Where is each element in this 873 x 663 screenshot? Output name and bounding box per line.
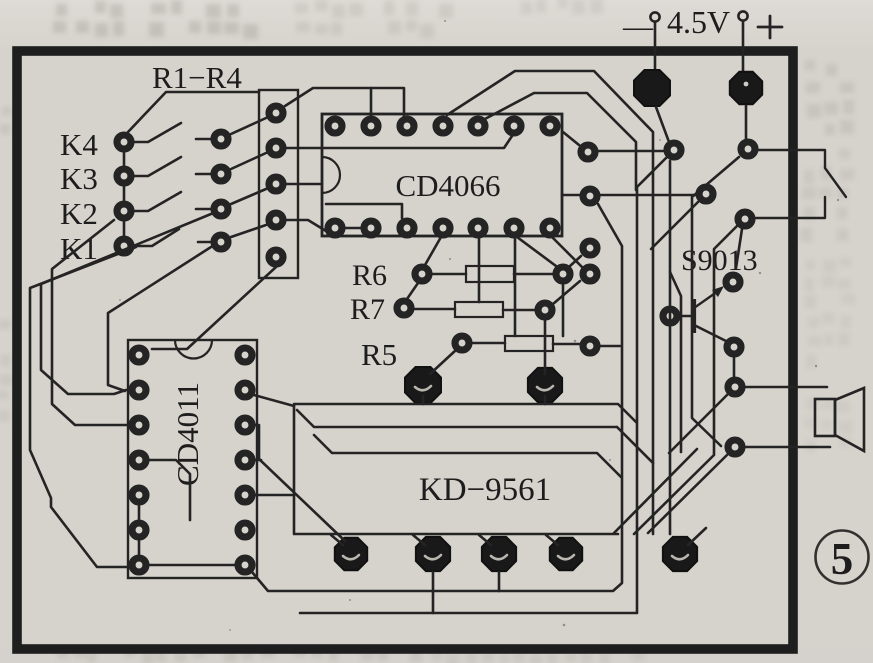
wire K right stubs xyxy=(196,139,211,242)
pad K1 left xyxy=(117,239,131,253)
wire bus vertical 637 with bottom rail xyxy=(300,158,666,613)
pad CD4066 pin top 7 xyxy=(543,119,557,133)
wire R7 right drop to blob B xyxy=(544,319,547,374)
resistor R6 body xyxy=(466,266,514,282)
wire IC corner to pad net1 xyxy=(563,132,579,145)
wire R column to CD4066 pin3 top xyxy=(285,88,404,117)
pad Q1 emitter xyxy=(726,275,740,289)
pad Q1 base xyxy=(663,309,677,323)
pad CD4066 pin bottom 4 xyxy=(436,221,450,235)
wire arm K3 to R2 xyxy=(231,153,266,169)
pad net1 xyxy=(581,145,595,159)
wire net2 to net6 xyxy=(600,194,696,197)
svg-text:KD−9561: KD−9561 xyxy=(419,472,551,508)
wire switch-top pad route to speaker-bottom pad xyxy=(692,157,739,446)
wire net5 drop vertical xyxy=(669,161,672,534)
pad K3 right xyxy=(214,167,228,181)
wire bus fan diag 1 xyxy=(614,449,697,533)
wire bus vertical 681 branch xyxy=(670,272,681,452)
wire R column pad5 diagonal through notch to pin1L xyxy=(152,267,276,349)
wire K column links xyxy=(123,152,126,236)
wire pin5R to bus left edge xyxy=(255,494,294,497)
CD4066 notch xyxy=(322,157,340,193)
wire CD4011 pins 5-6 left link xyxy=(138,505,141,520)
wire CD4011 pins 6-7 left link xyxy=(138,540,141,555)
pad K2 right xyxy=(214,202,228,216)
wire bus h2 chamfer into v653 xyxy=(617,427,653,463)
wire switch bottom contact xyxy=(756,197,825,218)
pad K4 right xyxy=(214,132,228,146)
pad CD4011 pin left 3 xyxy=(132,418,146,432)
pad CD4066 pin bottom 5 xyxy=(471,221,485,235)
wire net1 to net5 xyxy=(598,150,664,153)
wire K2-right to pin2 left xyxy=(41,214,211,394)
solder blob pad D xyxy=(416,537,450,571)
pad K2 left xyxy=(117,204,131,218)
pad K4 left xyxy=(117,135,131,149)
pad CD4011 pin left 5 xyxy=(132,488,146,502)
power terminal negative circle xyxy=(650,12,659,21)
wire pin4R stub xyxy=(253,459,261,462)
wire switch bottom to emitter xyxy=(736,229,742,268)
wire speaker top xyxy=(745,386,827,389)
wire pin2R to bus corner xyxy=(254,395,294,406)
pad R column 1 xyxy=(269,106,283,120)
figure number 5 circled xyxy=(816,531,869,585)
transistor Q1 S9013 bar xyxy=(692,299,696,333)
wire R6 leads xyxy=(432,273,553,276)
wire K2 to pin3 left xyxy=(52,220,129,425)
wire net2 pad down vertical 621 to CD4011 pin7R xyxy=(252,204,622,591)
wire R6 right drop to R5 body xyxy=(562,283,565,336)
pad R6 right xyxy=(556,267,570,281)
wire bus rectangle KD-9561 xyxy=(294,404,636,534)
wire blob drops xyxy=(433,572,499,613)
white fleck on positive blob xyxy=(744,82,749,87)
pad CD4011 pin left 6 xyxy=(132,523,146,537)
wire switch arm K1 xyxy=(136,229,179,246)
wire K4 label to box top xyxy=(128,92,259,132)
pad R5 left xyxy=(455,336,469,350)
op IC U1 CD4066 outline xyxy=(322,114,562,236)
wire R column pad3 to notch xyxy=(286,183,322,186)
wire bus vertical 714 with fan xyxy=(634,226,737,534)
svg-text:R1−R4: R1−R4 xyxy=(152,60,242,95)
pad CD4066 pin bottom 7 xyxy=(543,221,557,235)
wire CD4011 pin7L to pin7R link xyxy=(150,564,235,567)
pad R column 3 xyxy=(269,177,283,191)
solder blob pad A xyxy=(405,367,441,403)
wire R6 right up to pad 590-248 xyxy=(570,256,581,266)
svg-text:CD4066: CD4066 xyxy=(395,168,500,203)
wire pin4 bottom to R6 left xyxy=(425,237,441,265)
pad CD4066 pin bottom 2 xyxy=(364,221,378,235)
solder blob pad B xyxy=(528,368,562,402)
resistor R5 body xyxy=(505,336,553,351)
wire K1 to CD4011 pin7 left xyxy=(30,247,136,567)
pad CD4011 pin left 1 xyxy=(132,348,146,362)
pad CD4066 pin bottom 6 xyxy=(507,221,521,235)
wire switch arm K3 xyxy=(134,157,181,176)
pad CD4011 pin right 4 xyxy=(238,453,252,467)
svg-text:—: — xyxy=(622,10,654,43)
pad CD4011 pin right 5 xyxy=(238,488,252,502)
solder blob pad G xyxy=(663,537,697,571)
solder blob pad negative supply xyxy=(634,70,670,106)
pad switch bottom xyxy=(738,212,752,226)
wire blob row stubs xyxy=(331,535,558,545)
wire blob G stub xyxy=(688,528,706,545)
wire internal step to pin3 bottom xyxy=(326,204,402,218)
pad R column 4 xyxy=(269,213,283,227)
pad CD4066 pin bottom 1 xyxy=(328,221,342,235)
svg-text:4.5V: 4.5V xyxy=(667,4,730,40)
wire R6 left to R7 left xyxy=(407,283,418,299)
wire speaker bottom xyxy=(745,446,830,449)
svg-text:K2: K2 xyxy=(60,196,98,231)
pad K1 right xyxy=(214,235,228,249)
wire CD4066 pin2 top drop xyxy=(370,88,373,117)
svg-text:R7: R7 xyxy=(350,293,385,326)
wire R5 right to bus xyxy=(600,345,620,348)
pad CD4066 pin bottom 3 xyxy=(400,221,414,235)
wire net6 diag to drop xyxy=(651,202,698,249)
wire negative supply drop xyxy=(654,22,657,80)
wire R5 left to blob A xyxy=(430,350,456,374)
pad CD4011 pin left 7 xyxy=(132,558,146,572)
pad CD4066 pin top 4 xyxy=(436,119,450,133)
wire CD4011 internal step xyxy=(148,460,190,520)
pad net5 xyxy=(667,143,681,157)
pad CD4011 pin left 2 xyxy=(132,383,146,397)
pad R5 right xyxy=(583,339,597,353)
wire fan diag speaker-bottom xyxy=(648,455,727,533)
wire pin4-top sweep into vertical 653 xyxy=(447,71,653,534)
wire pin5-top sweep into vertical 637 xyxy=(483,93,636,190)
speaker xyxy=(815,388,864,451)
solder blob pad C xyxy=(335,538,367,570)
wire Q1 collector lead xyxy=(694,325,726,341)
pad R column 2 xyxy=(269,141,283,155)
wire R7 right to pad 590-274 xyxy=(553,281,580,304)
pad CD4011 pin left 4 xyxy=(132,453,146,467)
wire bus line h3 xyxy=(314,435,621,477)
wire switch arm K2 xyxy=(134,192,181,211)
pad switch top xyxy=(741,142,755,156)
wire blob stubs to bus xyxy=(423,396,545,404)
pad R7 left xyxy=(397,301,411,315)
pad CD4011 pin right 1 xyxy=(238,348,252,362)
pad CD4066 pin top 5 xyxy=(471,119,485,133)
svg-text:R6: R6 xyxy=(352,259,387,292)
wire arm K1 to R4 xyxy=(231,225,266,237)
pad net4 xyxy=(583,267,597,281)
pad CD4066 pin top 1 xyxy=(328,119,342,133)
pad CD4011 pin right 2 xyxy=(238,383,252,397)
wire positive supply drop xyxy=(742,21,745,75)
pad CD4066 pin top 3 xyxy=(400,119,414,133)
wire switch arm xyxy=(825,168,846,197)
pad CD4011 pin right 3 xyxy=(238,418,252,432)
pad CD4011 pin right 7 xyxy=(238,558,252,572)
svg-text:K3: K3 xyxy=(60,161,98,196)
wire bus line h2 xyxy=(297,410,617,427)
wire R7 leads xyxy=(414,309,535,310)
power label plus sign xyxy=(758,16,782,38)
pad speaker top xyxy=(728,380,742,394)
wire CD4066 pins1-2 bottom link xyxy=(344,227,362,230)
pad R6 left xyxy=(415,267,429,281)
CD4011 notch xyxy=(175,340,212,359)
pad CD4011 pin right 6 xyxy=(238,523,252,537)
svg-text:K4: K4 xyxy=(60,127,98,162)
solder blob pad F xyxy=(550,538,582,570)
pad R7 right xyxy=(538,303,552,317)
pad K3 left xyxy=(117,169,131,183)
pad Q1 collector xyxy=(727,340,741,354)
wire K1-right sweep to pin2 left xyxy=(108,247,211,391)
wire blob positive to switch top pad xyxy=(745,106,748,139)
wire fan diag speaker-top xyxy=(669,395,727,453)
wire pin5 bottom drop xyxy=(478,237,481,302)
svg-text:5: 5 xyxy=(831,534,854,584)
Q1 emitter arrow xyxy=(694,289,721,308)
resistor pack R1-R4 outline box xyxy=(259,90,298,278)
wire R5 leads xyxy=(472,343,580,344)
solder blob pad E xyxy=(482,537,516,571)
wire pin7 bottom to pad 590-274 xyxy=(552,237,582,267)
scan speckles (noise) xyxy=(119,20,839,631)
wire arm K4 to R1 xyxy=(231,118,266,134)
pad net6 xyxy=(699,187,713,201)
pad CD4066 pin top 6 xyxy=(507,119,521,133)
wire Q1 base lead xyxy=(680,315,692,318)
wire IC edge to pad net2 xyxy=(562,194,580,197)
IC U2 CD4011 outline xyxy=(128,340,257,578)
pad CD4066 pin top 2 xyxy=(364,119,378,133)
pad net3 xyxy=(583,241,597,255)
power terminal positive circle xyxy=(738,11,747,20)
solder blob pad positive supply xyxy=(730,72,762,104)
pad net2 xyxy=(583,189,597,203)
wire switch top contact xyxy=(758,150,825,168)
wire pin6 bottom to R6 right xyxy=(517,237,556,266)
pad speaker bottom xyxy=(728,440,742,454)
wire pin6 bottom drop to R5 xyxy=(514,237,517,336)
svg-text:R5: R5 xyxy=(361,337,397,372)
wire internal CD4066 to pin6 top xyxy=(286,133,514,148)
resistor R7 body xyxy=(455,302,503,317)
wire blob negative slant to net5 xyxy=(656,107,669,142)
wire collector pad to speaker-top pad xyxy=(733,357,736,377)
pad R column 5 xyxy=(269,250,283,264)
wire R column pad4 to pin1 bottom xyxy=(286,220,326,231)
wire switch arm K4 xyxy=(134,123,181,142)
wire arm K2 to R3 xyxy=(231,189,266,204)
wire pin3R to blob C xyxy=(253,425,345,541)
